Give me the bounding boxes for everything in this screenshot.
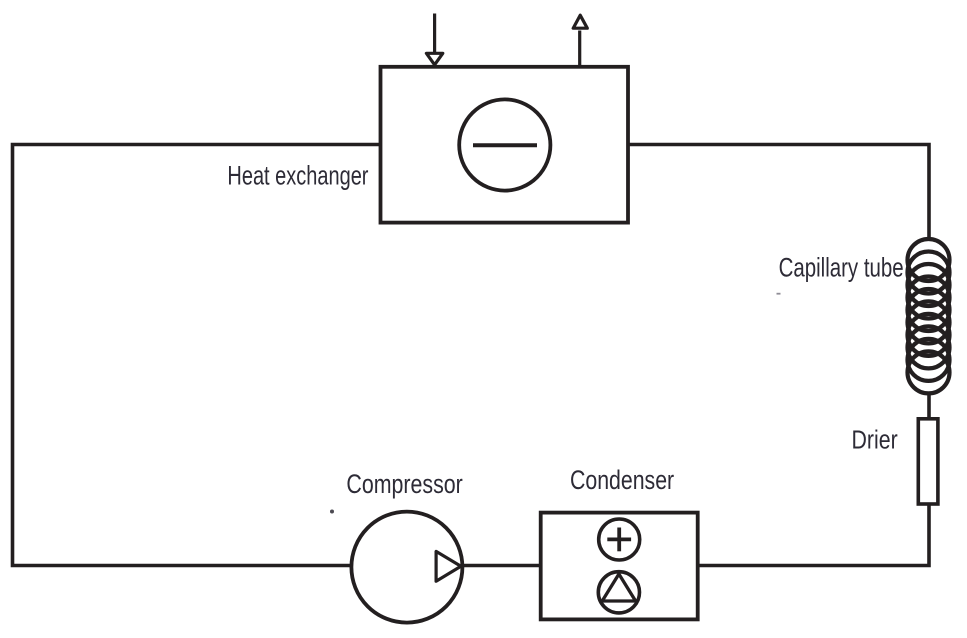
condenser plus circle <box>599 519 640 560</box>
svg-text:Capillary tube: Capillary tube <box>779 253 904 283</box>
heat exchanger circle inner bar <box>473 143 537 147</box>
wire left loop: heat exchanger left to bottom-left corner to compressor <box>13 145 381 566</box>
svg-text:Condenser: Condenser <box>570 466 674 496</box>
drier rectangle <box>918 419 938 504</box>
inlet arrow (down) above heat exchanger <box>426 14 442 65</box>
stray dot speck left of compressor label <box>330 510 334 514</box>
compressor triangle <box>436 551 461 581</box>
capillary tube coil <box>908 239 950 393</box>
condenser fan triangle <box>602 574 635 601</box>
condenser box <box>541 513 698 620</box>
svg-text:Heat exchanger: Heat exchanger <box>227 161 368 192</box>
compressor circle <box>351 512 462 623</box>
outlet arrow (up) above heat exchanger <box>573 15 587 67</box>
svg-text:Drier: Drier <box>852 426 898 456</box>
heat exchanger evaporator circle symbol <box>459 99 550 190</box>
condenser fan circle <box>598 572 639 613</box>
wire compressor to condenser <box>463 564 541 568</box>
wire capillary coil to top-right corner to heat exchanger right <box>628 145 929 239</box>
condenser plus sign <box>607 528 631 552</box>
wire condenser to bottom-right corner up to drier <box>698 504 929 566</box>
svg-text:Compressor: Compressor <box>346 470 462 500</box>
heat exchanger box <box>381 67 629 223</box>
wire drier to capillary coil <box>927 395 931 420</box>
stray dash speck below capillary label <box>777 293 781 295</box>
